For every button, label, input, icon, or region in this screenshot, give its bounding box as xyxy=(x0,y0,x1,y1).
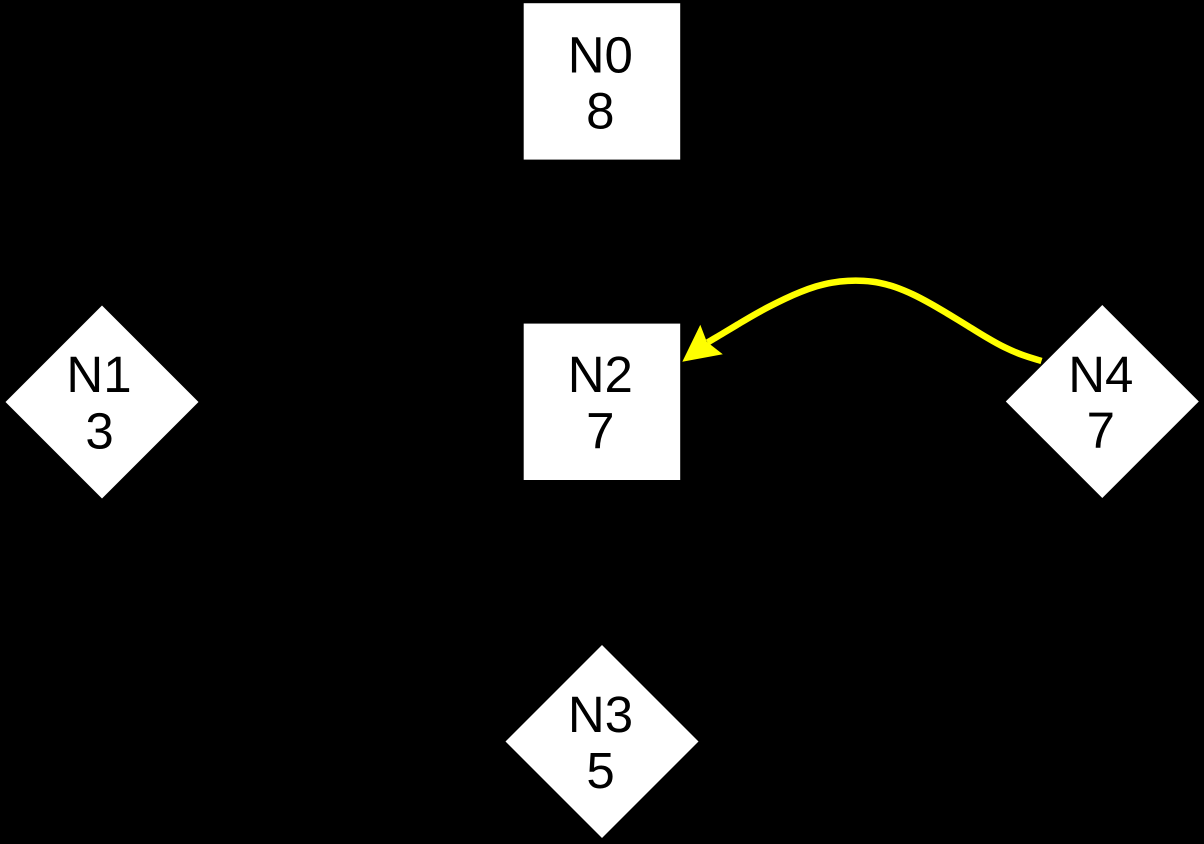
node N3 label "N3 / 5" xyxy=(568,686,633,799)
node N1 label "N1 / 3" xyxy=(66,346,131,459)
node N0 label "N0 / 8" xyxy=(568,26,633,139)
node N2 label "N2 / 7" xyxy=(568,346,633,459)
svg-text:3: 3 xyxy=(85,403,113,460)
node N3 (diamond) xyxy=(506,645,699,838)
svg-text:N3: N3 xyxy=(568,686,633,743)
svg-text:8: 8 xyxy=(586,83,614,140)
node N4 label "N4 / 7" xyxy=(1068,346,1133,459)
node N0 (square) xyxy=(524,3,681,159)
svg-text:N1: N1 xyxy=(66,346,131,403)
svg-text:5: 5 xyxy=(586,742,614,799)
node N2 (square) xyxy=(524,324,681,480)
edge N4 to N2 (yellow curved arrow shaft) xyxy=(708,281,1042,361)
svg-text:7: 7 xyxy=(1087,402,1115,459)
svg-text:N4: N4 xyxy=(1068,346,1133,403)
svg-text:N2: N2 xyxy=(568,346,633,403)
svg-text:7: 7 xyxy=(586,402,614,459)
svg-text:N0: N0 xyxy=(568,26,633,83)
node N1 (diamond) xyxy=(6,306,199,499)
arrowhead of edge N4 to N2 xyxy=(682,325,723,362)
node N4 (diamond) xyxy=(1006,305,1199,498)
